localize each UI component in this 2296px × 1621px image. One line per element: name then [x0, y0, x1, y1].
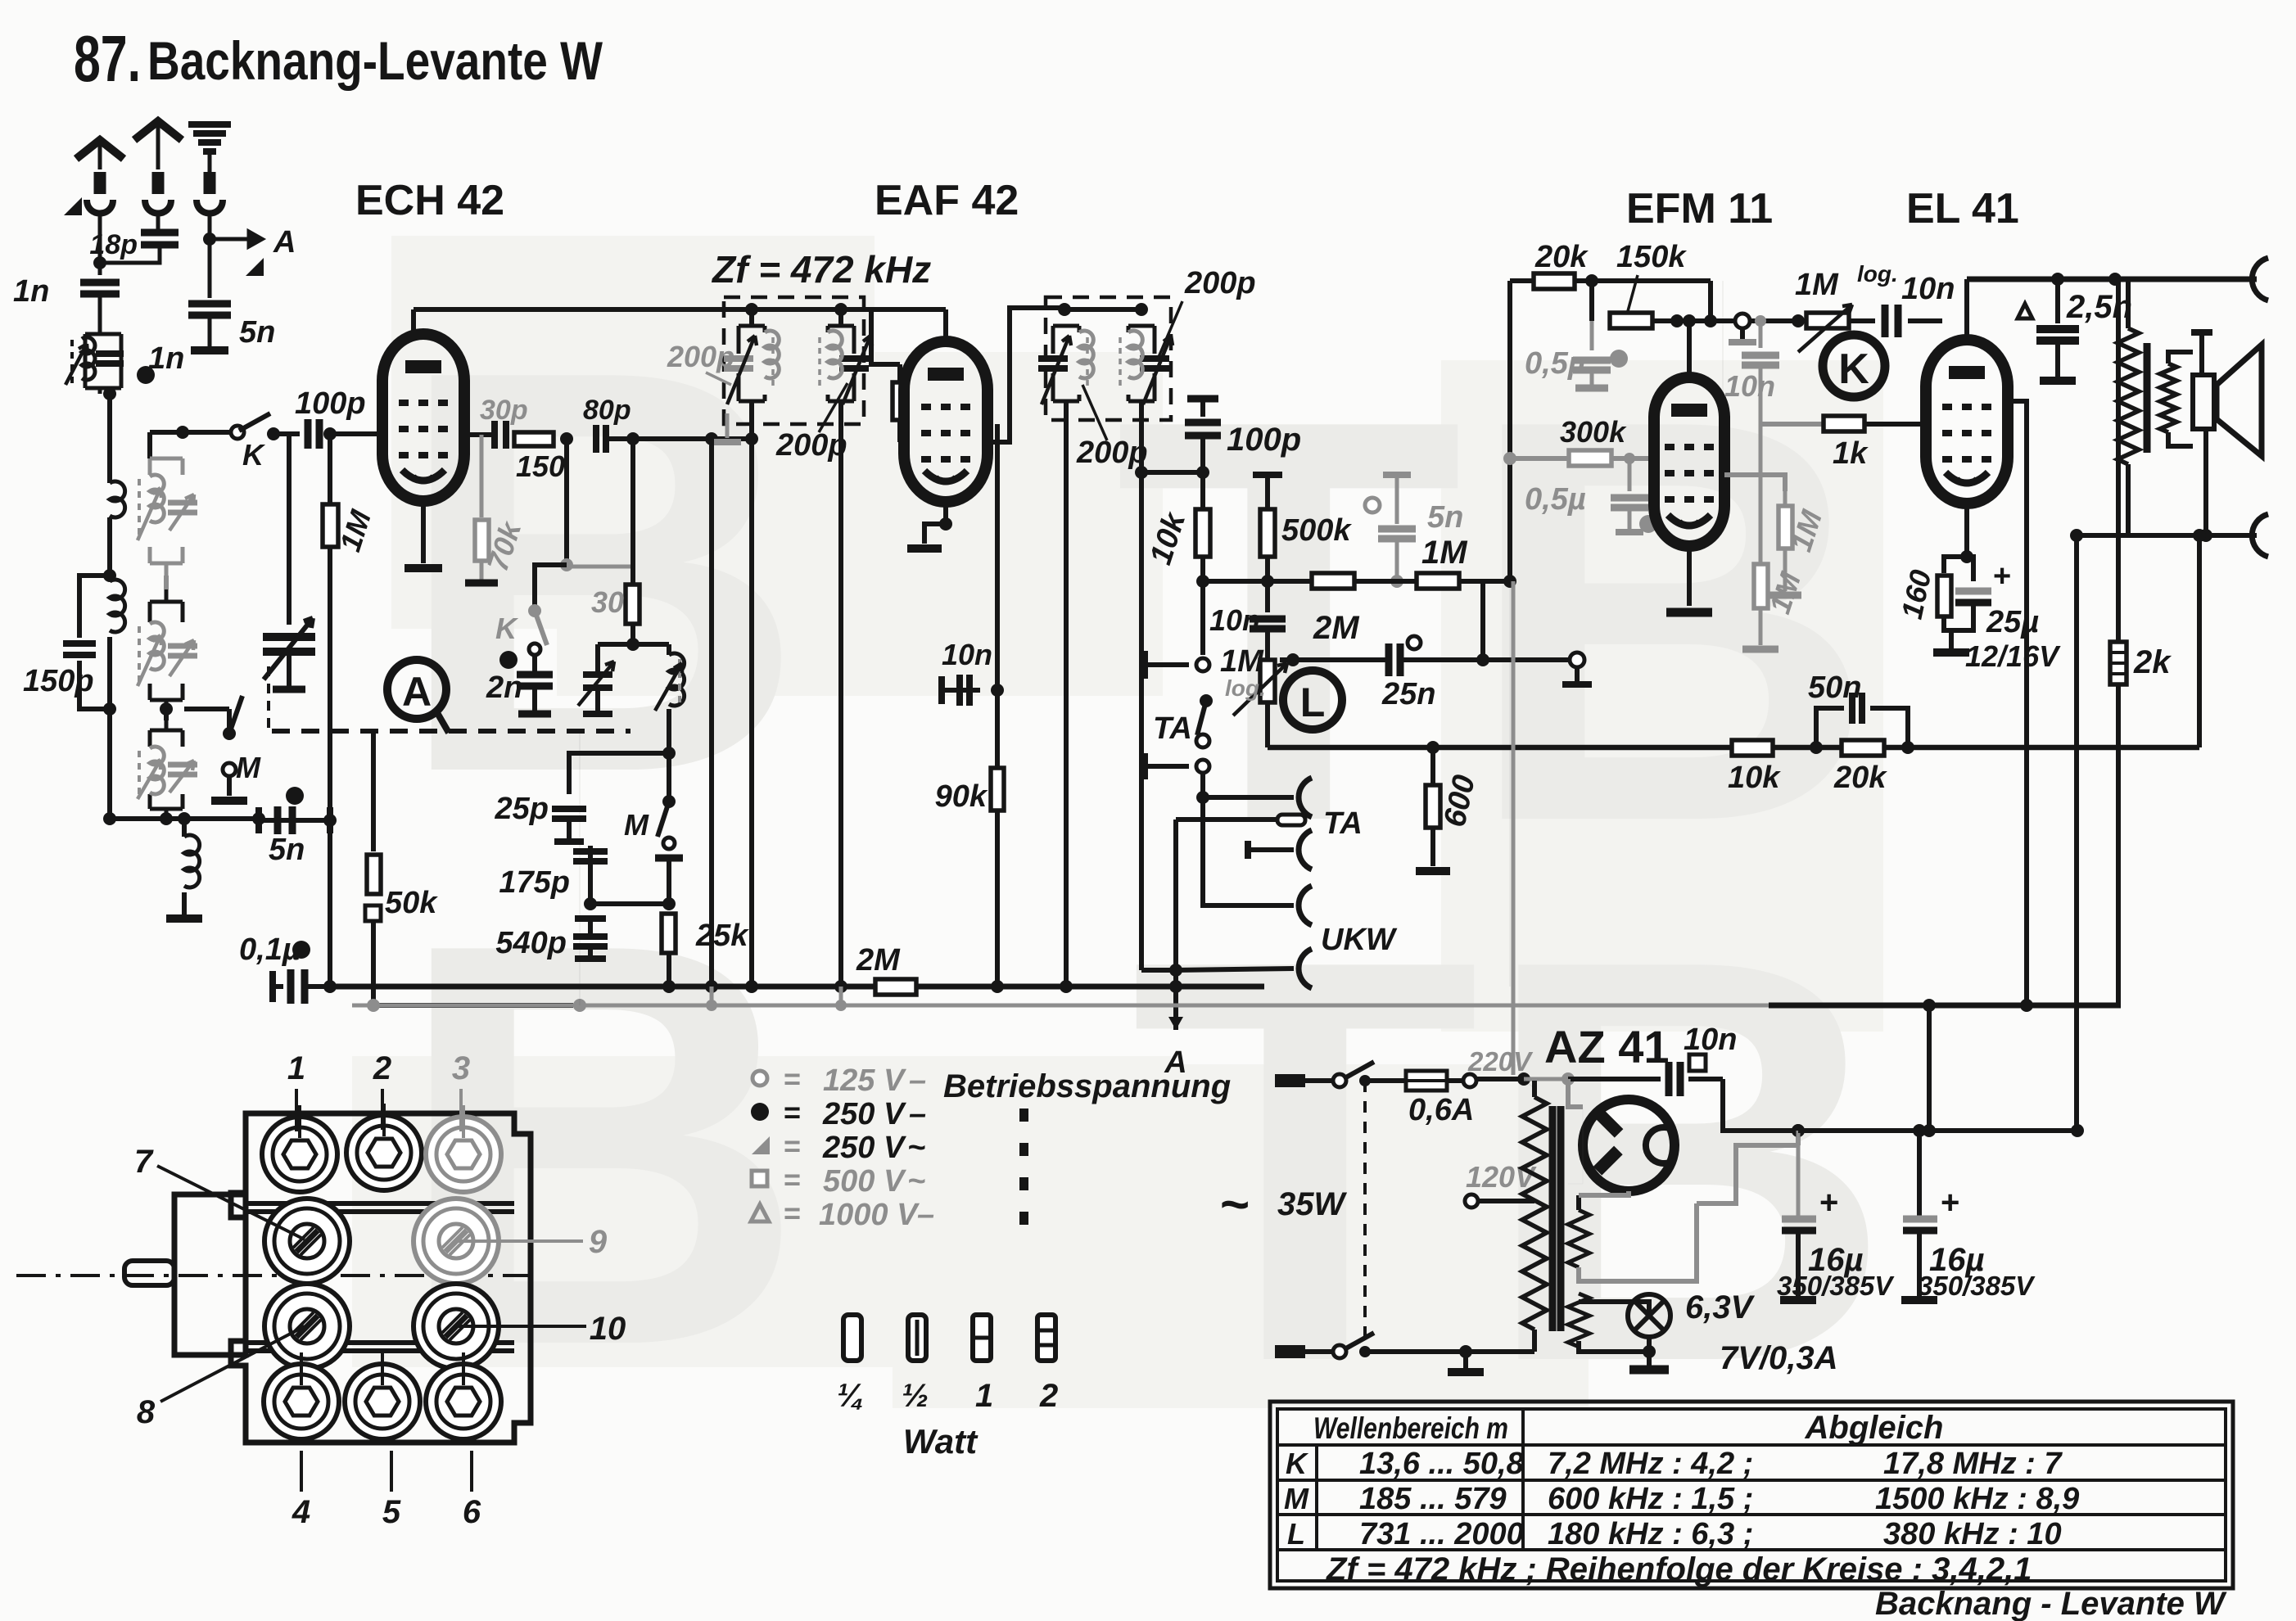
wire — [259, 818, 330, 823]
svg-text:25k: 25k — [695, 919, 749, 953]
tube EL41 — [1926, 340, 2008, 503]
wire — [839, 987, 843, 1005]
wire — [164, 709, 169, 720]
core dashes — [138, 479, 141, 540]
wire — [1403, 657, 1483, 662]
wire — [2055, 341, 2060, 377]
wire — [532, 686, 537, 711]
junction — [267, 427, 280, 440]
coil — [1079, 331, 1093, 378]
wire — [411, 309, 416, 334]
wire — [1964, 503, 1969, 557]
wire — [2116, 684, 2121, 1005]
junction — [1810, 741, 1823, 754]
watt bar 1/4 — [843, 1315, 861, 1361]
wire — [1797, 1131, 1801, 1217]
svg-text:1M: 1M — [1220, 644, 1264, 679]
svg-text:0,5µ: 0,5µ — [1525, 346, 1586, 381]
wire — [1579, 1337, 1649, 1352]
wire — [1870, 708, 1908, 747]
coil — [150, 747, 164, 794]
junction — [834, 980, 847, 993]
wire — [1248, 847, 1294, 852]
wire — [838, 401, 843, 413]
marker 250V- dot — [292, 941, 310, 959]
wire — [1769, 1003, 2121, 1009]
capacitor 25n — [1389, 643, 1400, 676]
wire — [1524, 1079, 1534, 1089]
capacitor 16µ electrolytic — [1782, 1216, 1816, 1223]
svg-text:¼: ¼ — [837, 1378, 864, 1414]
antenna symbol — [134, 121, 182, 140]
svg-text:K: K — [1286, 1447, 1309, 1480]
wire — [184, 707, 229, 711]
wire — [1576, 1195, 1581, 1210]
wire — [588, 846, 593, 904]
svg-text:+: + — [1993, 559, 2011, 594]
junction — [160, 812, 173, 825]
svg-text:=: = — [784, 1163, 801, 1196]
svg-text:A: A — [273, 225, 296, 260]
terminal — [1333, 1345, 1346, 1358]
wire — [2074, 535, 2079, 1131]
heater winding — [1568, 1294, 1589, 1347]
wire — [1268, 745, 2199, 751]
wire — [390, 1451, 393, 1492]
resistor 50k — [367, 855, 381, 894]
capacitor 5n — [278, 806, 292, 834]
junction — [1901, 741, 1914, 754]
wire — [182, 819, 187, 837]
junction — [1058, 303, 1071, 316]
junction — [323, 427, 337, 440]
wire — [595, 688, 600, 711]
capacitor 2,5n — [2036, 329, 2079, 341]
capacitor trim — [168, 503, 197, 512]
output terminal bottom — [2252, 514, 2268, 557]
svg-text:Zf = 472 kHz: Zf = 472 kHz — [711, 248, 931, 291]
IF2 primary tank — [1053, 326, 1079, 401]
wire — [1145, 662, 1189, 667]
svg-text:Zf = 472 kHz ; Reihenfolge d: Zf = 472 kHz ; Reihenfolge der Kreise : … — [1326, 1551, 2032, 1587]
connector pin (hex) — [345, 1364, 420, 1439]
wire — [470, 1451, 473, 1492]
wire — [156, 125, 160, 169]
marker 500V square — [365, 905, 381, 921]
svg-text:1000 V: 1000 V — [819, 1198, 920, 1232]
wire — [98, 144, 102, 169]
svg-text:+: + — [1941, 1185, 1959, 1221]
terminal — [1408, 636, 1421, 649]
wire — [79, 576, 110, 638]
capacitor 30p — [495, 421, 506, 449]
terminal — [529, 643, 540, 655]
wire — [1579, 1191, 1629, 1195]
wire — [2126, 464, 2131, 535]
jack UKW sleeve — [1299, 949, 1312, 988]
connector pin (screw) — [414, 1199, 499, 1284]
svg-text:25p: 25p — [495, 792, 549, 826]
svg-text:L: L — [1287, 1517, 1305, 1551]
wire — [1760, 422, 1824, 427]
IF transformer 2 dashed box — [1046, 297, 1171, 420]
svg-text:1M: 1M — [1421, 535, 1468, 571]
svg-text:6: 6 — [463, 1494, 481, 1530]
svg-text:150: 150 — [516, 449, 565, 483]
svg-text:50n: 50n — [1808, 671, 1861, 705]
output transformer primary — [2117, 328, 2139, 464]
wire — [535, 565, 567, 606]
wire — [1864, 422, 1927, 427]
core dashes — [1086, 337, 1089, 390]
wire — [1611, 456, 1655, 461]
terminal bar — [583, 711, 612, 717]
switch M2 lever — [658, 801, 669, 837]
svg-text:5n: 5n — [269, 833, 305, 867]
junction — [1704, 314, 1717, 327]
terminal bar — [575, 955, 606, 962]
wire — [459, 1089, 463, 1131]
svg-text:=: = — [784, 1196, 801, 1230]
junction — [323, 814, 337, 827]
trimmer tank 3 — [150, 720, 183, 819]
leader 8 — [160, 1326, 305, 1402]
wire — [414, 307, 752, 312]
junction — [1261, 575, 1274, 588]
terminal — [1333, 1074, 1346, 1087]
wire — [100, 245, 160, 263]
center dash-dot line — [16, 1274, 540, 1277]
wire — [838, 413, 843, 987]
junction — [1624, 453, 1635, 464]
wire — [273, 431, 300, 436]
junction — [93, 256, 106, 269]
svg-text:EAF 42: EAF 42 — [875, 177, 1019, 224]
wire — [667, 858, 671, 904]
ground-type antenna symbol — [188, 121, 231, 128]
marker 500V square — [1689, 1054, 1706, 1071]
terminal — [1735, 314, 1750, 328]
resistor 20k — [1842, 740, 1884, 756]
leader 9 — [459, 1239, 583, 1243]
resistor 500k — [1260, 509, 1275, 557]
wire — [1200, 581, 1205, 655]
wire — [598, 642, 669, 647]
wire — [1200, 435, 1205, 581]
wire — [1590, 321, 1594, 350]
wire — [1628, 458, 1632, 491]
wire — [1430, 747, 1435, 785]
coil — [765, 331, 779, 378]
wire — [1568, 1107, 1583, 1184]
wire — [300, 1451, 303, 1492]
capacitor trim — [168, 646, 197, 656]
transformer core — [1549, 1106, 1557, 1331]
pointer 200p — [819, 383, 847, 432]
wire — [2199, 332, 2204, 373]
watt bar 1/2 — [908, 1315, 926, 1361]
wire — [871, 309, 900, 364]
trimmer tank 2 — [150, 589, 183, 709]
junction — [103, 387, 116, 400]
wire — [371, 731, 376, 851]
wire — [156, 218, 160, 233]
antenna lead-in blob — [204, 172, 216, 194]
wire — [1265, 557, 1270, 581]
capacitor tank cap — [1140, 359, 1169, 368]
antenna lead-in blob — [94, 172, 106, 194]
resistor coupling — [893, 382, 906, 420]
svg-text:M: M — [1284, 1482, 1309, 1515]
svg-text:10n: 10n — [1684, 1023, 1737, 1057]
svg-text:175p: 175p — [499, 865, 570, 900]
capacitor 1n(loop) — [96, 354, 124, 363]
wire — [943, 309, 948, 341]
wire — [1796, 1230, 1801, 1296]
wire — [1203, 579, 1268, 584]
junction — [252, 812, 265, 825]
wire — [1724, 475, 1785, 491]
svg-text:150k: 150k — [1616, 240, 1687, 274]
wire — [1967, 557, 1973, 581]
wire — [287, 435, 292, 625]
svg-text:200p: 200p — [667, 340, 734, 373]
wire — [995, 424, 1000, 987]
switch K lever — [239, 413, 270, 431]
resistor 160 — [1937, 576, 1951, 616]
junction — [1683, 314, 1696, 327]
connector body — [231, 1113, 531, 1443]
junction — [1755, 315, 1766, 327]
trimmer arrow — [1042, 336, 1071, 404]
capacitor 10n — [1250, 619, 1286, 629]
svg-text:80p: 80p — [583, 395, 631, 426]
wire — [1944, 617, 1957, 630]
pointer 200p — [1159, 301, 1182, 357]
wire — [147, 432, 152, 458]
terminal bar — [1181, 664, 1186, 666]
svg-text:540p: 540p — [495, 926, 567, 960]
marker 250V~ triangle — [64, 197, 82, 215]
svg-text:=: = — [784, 1062, 801, 1095]
svg-text:350/385V: 350/385V — [1777, 1271, 1895, 1301]
capacitor tank cap — [724, 359, 753, 368]
capacitor 80p — [596, 425, 606, 453]
wire — [1798, 1128, 1919, 1133]
wire — [330, 984, 876, 990]
svg-text:1k: 1k — [1833, 436, 1869, 471]
junction — [751, 1103, 769, 1121]
terminal — [1196, 734, 1209, 747]
wire — [1759, 321, 1763, 348]
IF transformer 1 dashed box — [724, 297, 864, 424]
junction — [1169, 964, 1182, 977]
coil — [110, 481, 125, 517]
trimmer arrow — [264, 618, 313, 680]
core dashes — [138, 626, 141, 686]
resistor 600 — [1426, 785, 1440, 828]
wire — [1759, 366, 1763, 565]
wire — [1783, 549, 1788, 591]
resistor 30 — [626, 585, 640, 624]
capacitor 16µ electrolytic — [1903, 1216, 1937, 1223]
wire — [588, 919, 593, 933]
terminal bar — [554, 838, 584, 845]
svg-text:185 ... 579: 185 ... 579 — [1359, 1482, 1507, 1516]
resistor 20k — [1534, 273, 1575, 289]
capacitor 10n psu — [1669, 1062, 1680, 1096]
connector inner rails — [246, 1201, 514, 1206]
wire — [373, 921, 573, 1005]
junction — [203, 233, 216, 246]
svg-text:5n: 5n — [239, 315, 275, 350]
svg-text:1n: 1n — [13, 274, 49, 309]
wire — [1480, 581, 1485, 660]
terminal — [1570, 652, 1584, 667]
wire — [1532, 1330, 1537, 1352]
svg-text:10n: 10n — [1209, 603, 1260, 637]
wire — [1532, 1081, 1537, 1097]
wire — [1708, 281, 1713, 321]
junction — [939, 517, 952, 531]
wire — [532, 655, 537, 671]
wire — [1466, 1349, 1534, 1354]
mains switch lever — [1345, 1333, 1374, 1349]
svg-text:Watt: Watt — [903, 1422, 979, 1461]
wire — [98, 218, 102, 275]
junction — [2071, 1124, 2084, 1137]
wire — [324, 431, 383, 436]
wire — [569, 753, 669, 794]
svg-text:K: K — [495, 612, 519, 645]
wire — [1395, 540, 1399, 581]
connector pin (screw) — [264, 1199, 350, 1284]
terminal — [1365, 498, 1380, 512]
circle K symbol — [1823, 335, 1885, 397]
wire — [1509, 581, 1511, 987]
marker 250V- dot — [137, 366, 155, 384]
trimmer arrow — [1233, 663, 1287, 716]
jack UKW hot — [1299, 886, 1312, 925]
terminal — [231, 426, 244, 439]
wire — [1722, 281, 1724, 458]
junction — [160, 702, 173, 716]
wire — [1575, 278, 1711, 283]
marker 1000V triangle — [2018, 304, 2032, 318]
wire — [1687, 321, 1692, 377]
variable capacitor osc — [583, 675, 612, 688]
terminal bar — [273, 686, 305, 693]
table Wellenbereich/Abgleich — [1270, 1402, 2233, 1588]
junction — [2193, 529, 2206, 542]
resistor 150 — [514, 432, 554, 446]
coil — [1128, 331, 1142, 378]
legend square — [752, 1171, 767, 1186]
wire — [1176, 969, 1294, 970]
wire — [164, 576, 169, 589]
capacitor 5n — [188, 304, 231, 315]
oscillator dashed box — [272, 729, 630, 734]
junction — [834, 303, 847, 316]
ground — [2040, 377, 2076, 385]
wire — [1354, 579, 1417, 584]
wire — [1589, 281, 1594, 321]
wire — [1647, 1352, 1652, 1366]
svg-text:8: 8 — [137, 1394, 156, 1430]
svg-text:2: 2 — [373, 1050, 391, 1086]
coil — [82, 337, 95, 380]
wire — [2055, 279, 2060, 323]
connector side plug — [174, 1194, 246, 1355]
trimmer arrow — [727, 336, 757, 404]
svg-text:½: ½ — [902, 1378, 929, 1414]
junction — [1390, 575, 1403, 588]
svg-text:Abgleich: Abgleich — [1805, 1410, 1944, 1446]
wire — [1816, 708, 1844, 747]
wire — [710, 987, 714, 1005]
wire — [1305, 1078, 1333, 1083]
ground — [1933, 648, 1969, 657]
ground — [211, 797, 247, 805]
connector pin (hex) — [346, 1115, 422, 1190]
svg-text:log.: log. — [1225, 675, 1266, 701]
wire — [1280, 657, 1386, 662]
legend triangle open — [751, 1204, 769, 1221]
svg-text:500k: 500k — [1281, 513, 1352, 548]
svg-text:250 V: 250 V — [822, 1097, 906, 1131]
capacitor 25p — [552, 809, 586, 819]
ground — [713, 439, 741, 445]
wire — [609, 436, 752, 441]
wire — [1568, 1079, 1583, 1107]
svg-text:25n: 25n — [1381, 677, 1435, 711]
svg-text:A: A — [402, 669, 432, 715]
svg-text:1500 kHz : 8,9: 1500 kHz : 8,9 — [1875, 1482, 2079, 1516]
wire — [110, 816, 259, 821]
junction — [1517, 1072, 1530, 1086]
svg-text:5n: 5n — [1427, 500, 1463, 535]
wire — [1265, 581, 1270, 612]
wire — [1652, 318, 1742, 323]
ground — [405, 564, 442, 572]
svg-text:UKW: UKW — [1321, 923, 1398, 957]
wire — [1447, 1078, 1464, 1083]
capacitor 10n — [1742, 355, 1779, 365]
svg-text:10n: 10n — [1901, 272, 1955, 306]
svg-text:500 V: 500 V — [823, 1164, 906, 1199]
wire — [1575, 667, 1580, 681]
junction — [2070, 529, 2083, 542]
svg-text:160: 160 — [1895, 567, 1938, 621]
junction — [1792, 314, 1805, 327]
wire — [1524, 1077, 1568, 1081]
switch TA lever — [1197, 701, 1206, 735]
svg-text:17,8 MHz : 7: 17,8 MHz : 7 — [1883, 1447, 2063, 1481]
coil — [184, 835, 200, 887]
junction — [1562, 1072, 1575, 1086]
output terminal top — [2252, 258, 2268, 300]
wire — [107, 637, 112, 709]
svg-text:20k: 20k — [1534, 240, 1589, 274]
screen feed wire — [2008, 401, 2027, 1005]
junction — [178, 812, 191, 825]
pointer 150k — [1628, 275, 1638, 311]
svg-text:35W: 35W — [1277, 1186, 1347, 1222]
junction — [1060, 980, 1073, 993]
variable capacitor (tuning) — [263, 637, 315, 652]
mains terminal — [1275, 1074, 1305, 1087]
ground — [191, 346, 228, 354]
